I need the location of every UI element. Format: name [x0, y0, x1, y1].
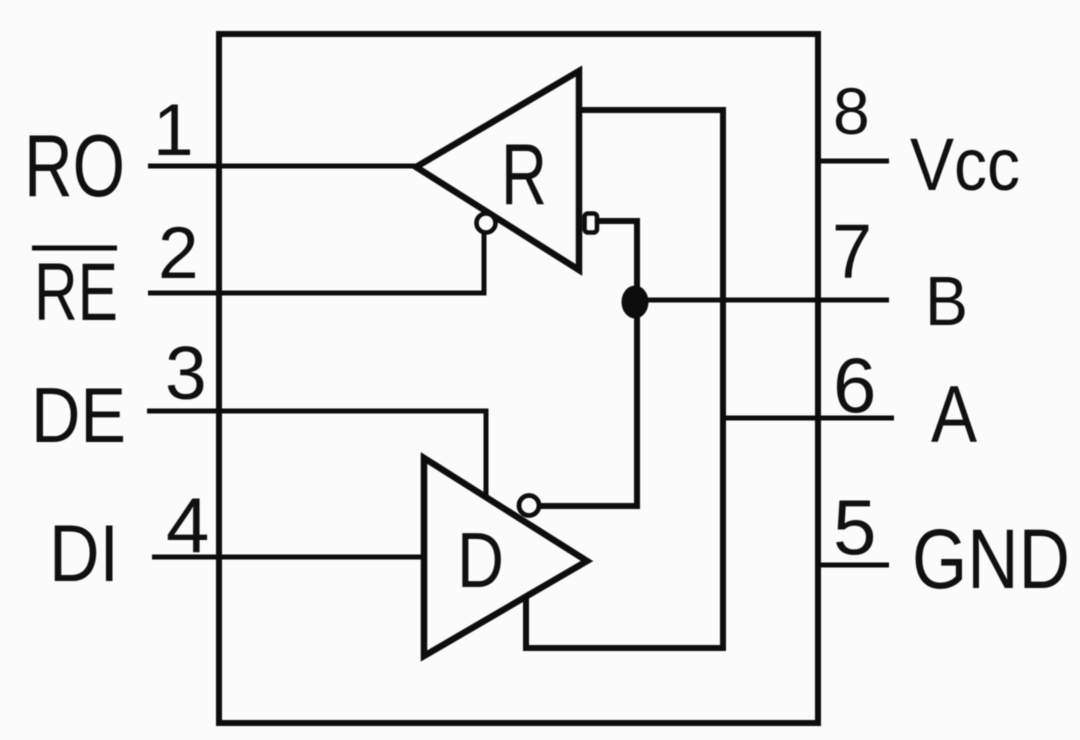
- svg-text:Vcc: Vcc: [910, 123, 1020, 206]
- svg-text:DE: DE: [31, 371, 126, 459]
- svg-text:7: 7: [832, 209, 872, 295]
- svg-text:5: 5: [833, 483, 876, 571]
- node B junction dot: [622, 286, 649, 319]
- receiver enable bubble: [477, 214, 496, 233]
- wire A bus vertical: [720, 107, 726, 648]
- svg-text:R: R: [501, 127, 547, 223]
- IC package outline U1: [219, 34, 818, 723]
- wire pin 4 DI to driver input: [152, 555, 424, 560]
- svg-text:4: 4: [166, 481, 209, 569]
- svg-text:RE: RE: [34, 247, 118, 338]
- wire pin 6 A: [723, 416, 894, 421]
- wire pin 5 GND: [818, 563, 889, 568]
- svg-text:D: D: [457, 516, 504, 604]
- svg-text:B: B: [925, 262, 968, 340]
- wire receiver inverting input from node B: [599, 221, 637, 300]
- receiver R triangle: [416, 71, 579, 270]
- receiver inverting input square bubble: [585, 214, 598, 233]
- svg-text:8: 8: [833, 74, 870, 148]
- wire pin 7 B: [636, 298, 889, 303]
- wire driver output to A bus: [526, 591, 726, 648]
- svg-text:1: 1: [153, 90, 194, 171]
- svg-text:6: 6: [833, 341, 876, 429]
- wire pin 3 DE to driver enable: [147, 411, 486, 498]
- svg-text:RO: RO: [24, 116, 125, 215]
- wire pin 2 RE to receiver enable bubble: [148, 230, 484, 293]
- driver inverting output bubble: [519, 496, 539, 516]
- RE overline: [32, 246, 117, 251]
- svg-text:2: 2: [158, 213, 199, 294]
- wire node B to driver inverting output bubble: [537, 300, 637, 506]
- wire pin 1 RO to receiver apex: [148, 164, 416, 169]
- svg-text:A: A: [931, 370, 977, 460]
- svg-text:GND: GND: [912, 512, 1070, 606]
- svg-text:3: 3: [165, 331, 207, 415]
- svg-text:DI: DI: [49, 509, 119, 599]
- driver D triangle: [424, 458, 587, 656]
- wire pin 8 Vcc: [818, 159, 889, 164]
- wire receiver output top to A bus: [579, 107, 723, 113]
